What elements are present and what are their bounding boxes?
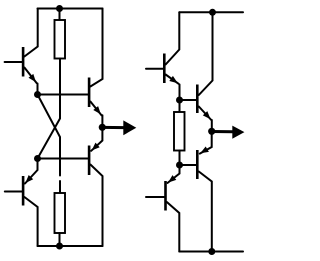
wire: top rail (right) (179, 11, 243, 13)
node X: output node of left circuit (99, 124, 106, 131)
wire: top rail (38, 8, 103, 10)
wire: bottom rail (right) (179, 251, 243, 253)
transistor Q5 (NPN, upper-left of right circuit) (146, 12, 180, 100)
node: bottom rail / R2 junction (56, 243, 63, 250)
wire: node A to Q2 base (38, 94, 88, 96)
wire: cross-coupling node B to R1 bottom (38, 59, 61, 159)
node: bottom rail / Q7 collector junction (208, 248, 215, 255)
transistor Q1 (NPN, top-left) (5, 9, 38, 95)
wire: node B to Q3 base (38, 158, 88, 160)
wire: node C to R3 top (179, 100, 181, 112)
terminal: right circuit output arrow (212, 126, 245, 139)
node: top rail / Q6 collector junction (209, 9, 216, 16)
wire: R2 bottom lead (59, 233, 61, 246)
node Y: output node of right circuit (208, 128, 215, 135)
node C: Q5 emitter / Q6 base / R3 junction (176, 97, 183, 104)
node: top rail / R1 junction (56, 5, 63, 12)
transistor Q4 (PNP, bottom-left) (5, 159, 38, 247)
transistor Q6 (NPN, right middle-upper) (196, 12, 213, 131)
wire: cross-coupling node A to R2 top (38, 95, 61, 176)
wire: R1 top lead (59, 9, 61, 21)
wire: node D to Q7 base (180, 164, 197, 166)
wire: node C to Q6 base (180, 99, 197, 101)
transistor Q3 (PNP, lower-middle) (88, 127, 103, 246)
wire: cross-coupling lower segment after gap (59, 181, 61, 193)
node A: Q1 emitter / Q2 base junction (34, 91, 41, 98)
resistor R2 (55, 193, 66, 233)
node D: R3 bottom / Q7 base / Q8 emitter junction (176, 162, 183, 169)
transistor Q2 (NPN, upper-middle) (88, 9, 103, 128)
resistor R1 (55, 20, 66, 59)
terminal: left circuit output arrow (102, 120, 136, 135)
transistor Q8 (PNP, bottom-left of right circuit) (146, 165, 180, 252)
wire: bottom rail (38, 245, 103, 247)
resistor R3 (174, 112, 185, 151)
node B: Q4 emitter / Q3 base junction (34, 155, 41, 162)
transistor Q7 (PNP, right middle-lower) (196, 131, 212, 251)
wire: R3 bottom lead (179, 151, 181, 166)
